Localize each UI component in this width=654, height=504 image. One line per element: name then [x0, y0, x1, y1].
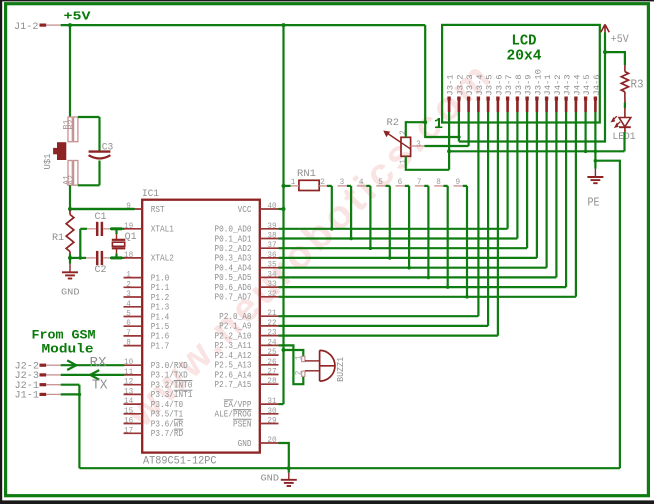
svg-text:C2: C2 [95, 265, 107, 276]
svg-text:J4-3: J4-3 [563, 74, 573, 95]
LED LED1 [624, 108, 626, 117]
wire LED1 cathode to ground line [624, 127, 626, 132]
wire RN1 pin 7 to P0.5 [427, 186, 429, 278]
svg-text:P1.7: P1.7 [151, 340, 169, 351]
wire P0.6 to LCD J4-3 [279, 286, 567, 288]
svg-text:IC1: IC1 [142, 189, 159, 200]
wire R2 pin2 to +5V [406, 122, 425, 137]
svg-text:J3-10: J3-10 [533, 69, 543, 96]
svg-text:J3-2: J3-2 [455, 74, 465, 95]
IC1 pin 33 [260, 286, 279, 288]
wire R3 to LED1 [624, 103, 626, 109]
ground symbol PE [594, 169, 596, 177]
svg-text:J4-6: J4-6 [592, 74, 602, 95]
wire ground bus [79, 467, 620, 469]
IC1 pin 8 [124, 345, 143, 347]
svg-text:1: 1 [126, 270, 131, 280]
svg-text:3: 3 [126, 289, 131, 299]
wire B2 to C3 top [78, 116, 100, 118]
wire P0.7 to LCD J4-4 [279, 296, 576, 298]
wire P0.1 to LCD J3-8 [279, 237, 518, 239]
svg-text:23: 23 [267, 328, 276, 338]
IC1 pin 17 [124, 432, 143, 434]
node RST [68, 207, 72, 211]
IC1 pin 2 [124, 286, 143, 288]
svg-text:P0.7_AD7: P0.7_AD7 [215, 292, 252, 303]
IC1 pin 32 [260, 296, 279, 298]
svg-text:GND: GND [61, 287, 80, 298]
svg-text:17: 17 [124, 425, 133, 435]
wire A1 down to RST node [69, 185, 71, 209]
IC1 pin 35 [260, 267, 279, 269]
svg-text:PSEN: PSEN [233, 418, 251, 429]
svg-text:TX: TX [92, 378, 108, 393]
svg-text:21: 21 [267, 308, 276, 318]
svg-text:P3.7/RD: P3.7/RD [151, 428, 184, 439]
svg-text:25: 25 [267, 347, 276, 357]
svg-text:B2: B2 [68, 119, 77, 129]
IC1 pin 29 [260, 423, 279, 425]
IC1 pin 24 [260, 344, 279, 346]
svg-text:19: 19 [124, 221, 133, 231]
wire J4-6 / PE [594, 112, 596, 169]
svg-text:J3-6: J3-6 [494, 74, 504, 95]
IC1 pin 15 [124, 413, 143, 415]
IC1 pin 27 [260, 374, 279, 376]
svg-text:J4-2: J4-2 [553, 74, 563, 95]
wire P0.4 to LCD J4-1 [279, 267, 547, 269]
svg-text:VCC: VCC [238, 204, 252, 215]
svg-text:1: 1 [434, 116, 443, 133]
wire RN1 pin 8 to P0.6 [447, 186, 449, 287]
svg-text:P2.7_A15: P2.7_A15 [215, 379, 252, 390]
svg-text:GND: GND [238, 438, 252, 449]
svg-text:28: 28 [267, 376, 276, 386]
LCD module box [442, 25, 600, 123]
svg-text:40: 40 [267, 201, 276, 211]
IC1 pin 34 [260, 276, 279, 278]
svg-text:RN1: RN1 [297, 169, 316, 180]
svg-text:J3-8: J3-8 [514, 74, 524, 95]
svg-text:6: 6 [126, 318, 131, 328]
IC1 pin 37 [260, 247, 279, 249]
svg-text:RX: RX [90, 356, 107, 371]
svg-text:J3-5: J3-5 [485, 74, 495, 95]
IC1 pin 25 [260, 354, 279, 356]
svg-text:29: 29 [267, 416, 276, 426]
wire +5V rail [61, 24, 426, 26]
wire P0.0 to LCD J3-7 [279, 228, 508, 230]
IC1 pin 39 [260, 228, 279, 230]
wire xtal caps ground leg [79, 229, 81, 258]
wire RN1 pin 3 to P0.1 [350, 186, 352, 239]
IC1 pin 14 [124, 403, 143, 405]
wire +5V drop to U$1 [69, 25, 71, 117]
wire C2 to XTAL2 [110, 257, 124, 259]
IC1 pin 7 [124, 335, 143, 337]
wire RN1 pin 5 to P0.3 [389, 186, 391, 258]
wire P0.5 to LCD J4-2 [279, 276, 557, 278]
IC1 pin 6 [124, 325, 143, 327]
svg-text:14: 14 [124, 396, 133, 406]
IC1 pin 30 [260, 413, 279, 415]
svg-text:J4-5: J4-5 [582, 74, 592, 95]
IC1 pin 16 [124, 423, 143, 425]
svg-text:11: 11 [124, 367, 133, 377]
svg-text:20: 20 [267, 435, 276, 445]
wire P0.3 to LCD J3-10 [279, 257, 537, 259]
wire +5V to LCD J3-2 [425, 25, 459, 137]
+5V supply arrow [601, 24, 609, 32]
svg-text:10: 10 [124, 357, 133, 367]
wire R1 bottom to ground [69, 254, 71, 258]
svg-text:31: 31 [267, 396, 276, 406]
svg-text:18: 18 [124, 250, 133, 260]
wire RST overlay [70, 208, 135, 210]
wire VCC/EA +5V vertical [282, 25, 284, 404]
IC1 pin 4 [124, 306, 143, 308]
svg-text:PE: PE [588, 196, 600, 210]
IC1 pin 18 [124, 257, 143, 259]
wire LCD J3-3 contrast [468, 112, 470, 146]
svg-text:38: 38 [267, 231, 276, 241]
IC1 pin 21 [260, 315, 279, 317]
svg-text:J3-4: J3-4 [475, 74, 485, 95]
svg-text:8: 8 [126, 338, 131, 348]
svg-text:36: 36 [267, 250, 276, 260]
svg-text:26: 26 [267, 357, 276, 367]
wire RX to IC pin 10 [61, 364, 125, 366]
svg-text:R1: R1 [52, 233, 64, 244]
svg-text:C1: C1 [95, 212, 107, 223]
wire P2.1 to LCD J3-5 [279, 325, 489, 327]
wire R2 pin1 to ground [406, 156, 449, 170]
wire J1-1 ground [61, 393, 80, 395]
IC1 pin 1 [124, 277, 143, 279]
wire RN1 pin 6 to P0.4 [408, 186, 410, 268]
svg-text:5: 5 [126, 309, 131, 319]
wire A2 to C3 bottom [78, 184, 100, 186]
IC1 pin 23 [260, 335, 279, 337]
IC1 pin 11 [124, 374, 143, 376]
IC1 pin 22 [260, 325, 279, 327]
svg-text:27: 27 [267, 367, 276, 377]
svg-text:J4-4: J4-4 [572, 74, 582, 95]
ground symbol GND (IC) [288, 473, 290, 479]
wire RN1 pin 2 to P0.0 [331, 186, 333, 229]
wire P0.2 to LCD J3-9 [279, 247, 528, 249]
wire RN1 pin 4 to P0.2 [369, 186, 371, 248]
wire RST to IC pin 9 [70, 208, 134, 210]
svg-text:32: 32 [267, 289, 276, 299]
svg-text:XTAL2: XTAL2 [151, 253, 174, 264]
svg-text:R3: R3 [631, 78, 644, 92]
svg-text:U$1: U$1 [42, 153, 53, 169]
ground symbol GND (reset) [69, 258, 71, 264]
svg-text:+5V: +5V [64, 9, 92, 23]
wire IC pin20 to ground [279, 443, 289, 473]
svg-text:33: 33 [267, 279, 276, 289]
svg-text:J4-1: J4-1 [543, 74, 553, 95]
svg-text:J1-2: J1-2 [14, 22, 39, 33]
svg-text:J3-3: J3-3 [465, 74, 475, 95]
wire P2.0 to LCD J3-4 [279, 315, 479, 317]
svg-text:24: 24 [267, 337, 276, 347]
wire R2 wiper to J3-3 [411, 145, 425, 147]
IC1 pin 28 [260, 383, 279, 385]
IC1 pin 26 [260, 364, 279, 366]
svg-text:GND: GND [261, 473, 280, 484]
wire P2.2 to LCD J3-6 [279, 335, 498, 337]
IC1 pin 13 [124, 393, 143, 395]
IC1 pin 19 [124, 228, 143, 230]
svg-text:13: 13 [124, 386, 133, 396]
svg-text:R2: R2 [387, 117, 400, 129]
svg-text:J1-1: J1-1 [15, 391, 40, 402]
wire pin40 VCC [279, 208, 284, 210]
svg-text:2: 2 [126, 279, 131, 289]
wire +5V to R3 [605, 52, 625, 65]
svg-text:22: 22 [267, 318, 276, 328]
IC1 pin 10 [124, 364, 143, 366]
IC1 pin 31 [260, 403, 279, 405]
wire +5V to buzzer pin 1 [284, 350, 304, 356]
svg-text:15: 15 [124, 406, 133, 416]
wire J2-1 ground [61, 384, 80, 386]
svg-text:BUZZ1: BUZZ1 [336, 357, 346, 382]
svg-text:37: 37 [267, 240, 276, 250]
svg-text:A2: A2 [68, 175, 77, 185]
svg-text:Q1: Q1 [125, 232, 137, 243]
wire LCD J3-1 ground [448, 112, 450, 170]
wire PE branch to ground bus [595, 161, 620, 469]
IC1 pin 40 [260, 208, 279, 210]
wire LCD J3-2 +5V [458, 112, 460, 142]
wire +5V branch line [459, 33, 605, 142]
svg-text:7: 7 [126, 328, 131, 338]
svg-text:XTAL1: XTAL1 [151, 224, 174, 235]
svg-text:AT89C51-12PC: AT89C51-12PC [143, 456, 217, 468]
svg-text:+5V: +5V [611, 34, 629, 46]
IC1 pin 5 [124, 316, 143, 318]
wire C1 to XTAL1 [110, 228, 124, 230]
IC1 pin 36 [260, 257, 279, 259]
IC1 pin 38 [260, 238, 279, 240]
svg-text:RST: RST [151, 204, 165, 215]
svg-text:12: 12 [124, 377, 133, 387]
wire RN1 pin 9 to P0.7 [466, 186, 468, 297]
svg-text:30: 30 [267, 406, 276, 416]
BUZZ1 body [320, 350, 335, 381]
svg-text:16: 16 [124, 416, 133, 426]
svg-text:J3-1: J3-1 [446, 74, 456, 95]
decorative watermark (not labelled further) [118, 53, 502, 437]
IC1 pin 12 [124, 384, 143, 386]
svg-text:3: 3 [416, 139, 421, 149]
svg-text:20x4: 20x4 [507, 48, 542, 65]
wire ground line (LCD area) [449, 150, 624, 152]
svg-text:35: 35 [267, 260, 276, 270]
svg-text:J3-7: J3-7 [504, 74, 514, 95]
svg-text:From GSM: From GSM [32, 328, 96, 343]
svg-text:39: 39 [267, 221, 276, 231]
svg-text:J3-9: J3-9 [524, 74, 534, 95]
IC1 pin 3 [124, 296, 143, 298]
svg-text:34: 34 [267, 269, 276, 279]
wire J4-5 to ground [584, 112, 586, 151]
svg-text:Module: Module [42, 341, 94, 356]
border frame [0, 0, 2, 504]
IC1 pin 20 [260, 442, 279, 444]
IC1 pin 9 [124, 208, 143, 210]
wire P2.3 to buzzer pin 2 [279, 345, 304, 384]
wire TX to IC pin 11 [61, 374, 125, 376]
svg-text:4: 4 [126, 299, 131, 309]
